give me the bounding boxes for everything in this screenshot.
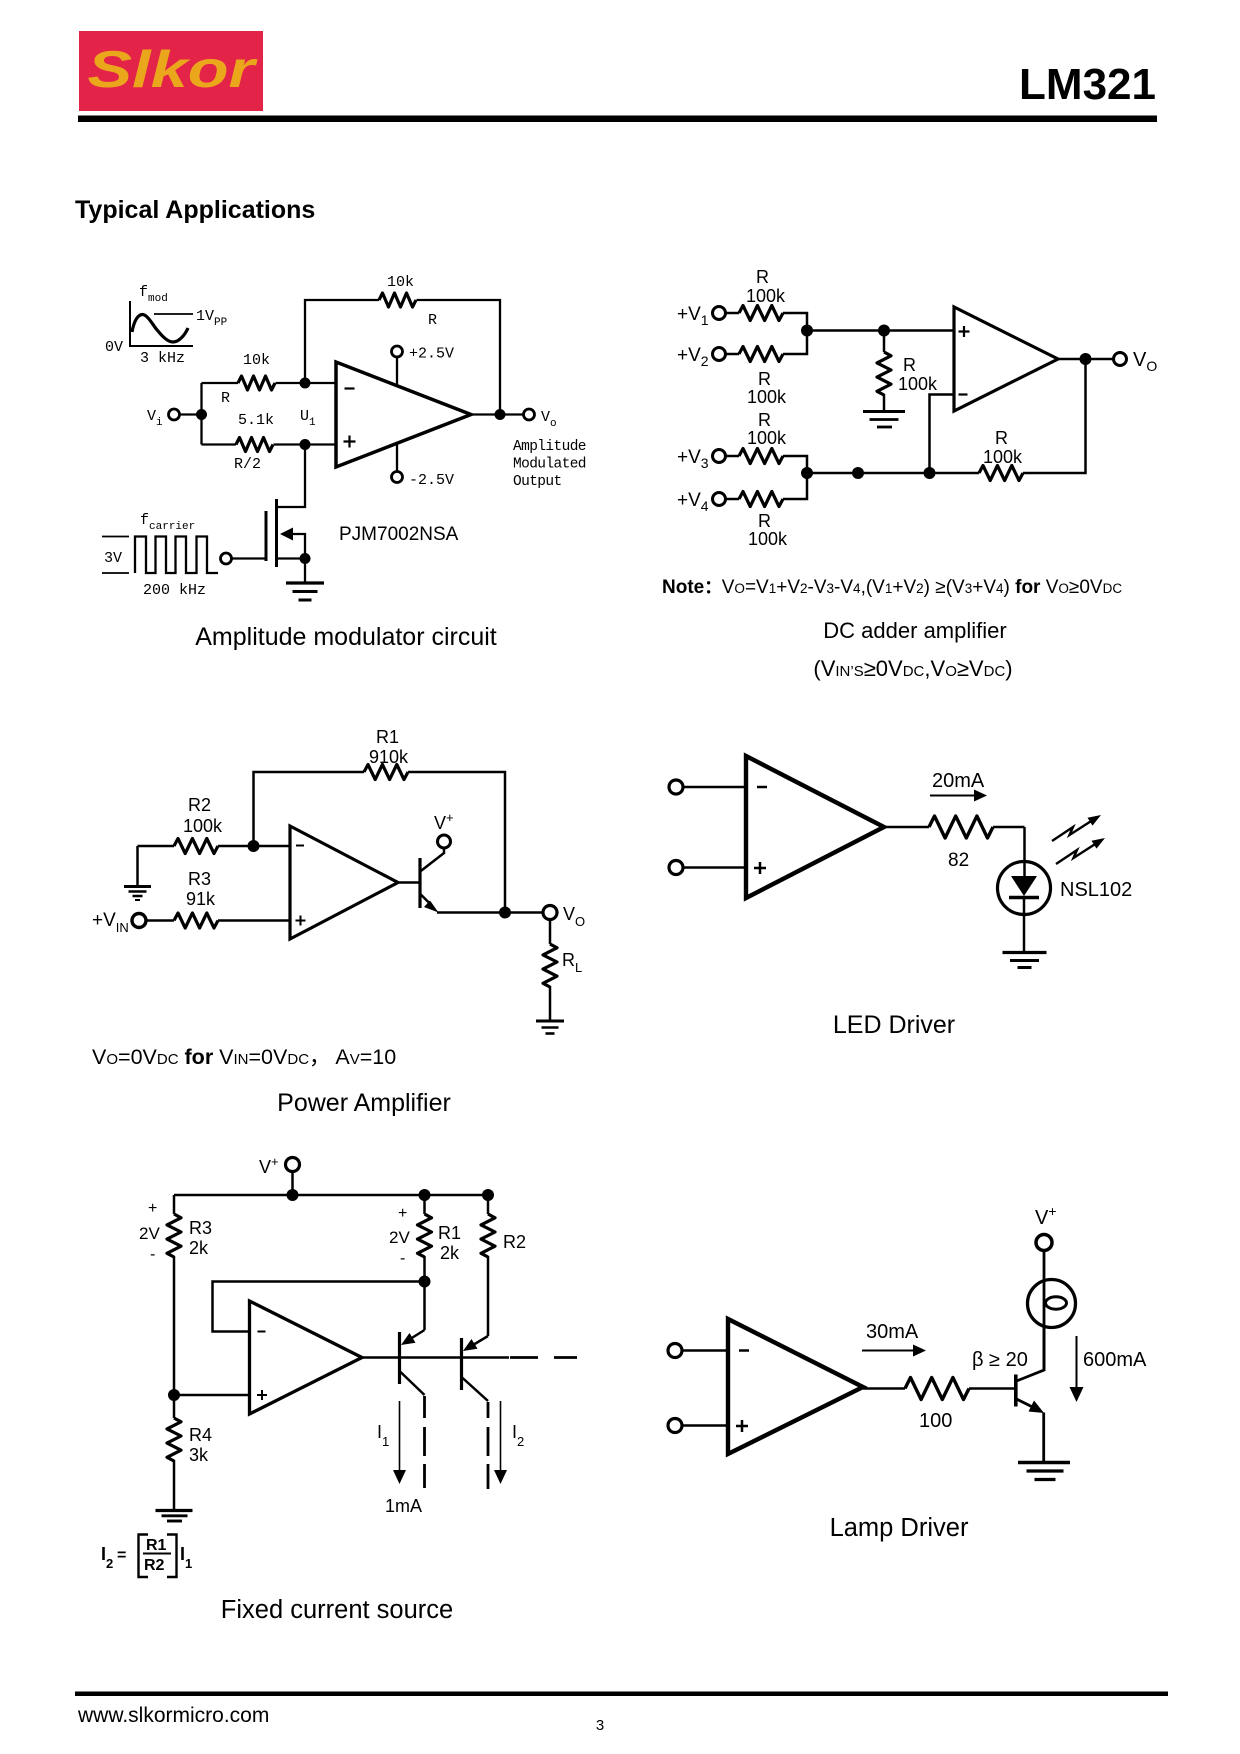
svg-text:PJM7002NSA: PJM7002NSA: [339, 524, 459, 545]
svg-text:R: R: [221, 390, 230, 407]
node output: [495, 409, 506, 420]
wire V+ to rail: [291, 1172, 294, 1196]
wire base: [398, 881, 420, 883]
node inverting input: [300, 378, 311, 389]
wire R1 to node: [423, 1256, 426, 1282]
transistor Q2 bar: [460, 1338, 463, 1390]
svg-text:Power Amplifier: Power Amplifier: [277, 1089, 451, 1117]
node V+ rail: [287, 1189, 299, 1201]
wire node to R4: [173, 1395, 176, 1418]
resistor R 100k (V3): [739, 449, 783, 464]
wire rail to R2: [487, 1195, 490, 1214]
resistor R4 3k: [167, 1418, 181, 1461]
wire input 1: [683, 786, 746, 789]
svg-text:2k: 2k: [440, 1243, 460, 1263]
wire input 2: [683, 866, 746, 869]
f_mod waveform axes: [129, 301, 193, 346]
resistor R1 910k: [364, 765, 408, 780]
transistor Q2 collector lead: [462, 1377, 489, 1401]
svg-text:100: 100: [919, 1410, 952, 1432]
resistor R3 2k: [167, 1214, 181, 1257]
wire V2 to resistor: [726, 353, 739, 356]
svg-text:=: =: [117, 1547, 126, 1564]
f_mod sine wave: [132, 315, 188, 342]
svg-text:R3: R3: [188, 869, 211, 889]
node R1 rail: [419, 1189, 431, 1201]
terminal +2.5V: [392, 346, 403, 357]
wire feedback right and down: [417, 300, 501, 415]
node inverting: [248, 840, 260, 852]
svg-text:200 kHz: 200 kHz: [143, 582, 206, 599]
wire node to Q1 emitter: [423, 1282, 426, 1331]
svg-text:3 kHz: 3 kHz: [140, 350, 185, 367]
node non-inverting: [168, 1389, 180, 1401]
terminal +V1: [713, 307, 726, 320]
wire output to resistor: [884, 826, 929, 829]
terminal VO: [1114, 353, 1127, 366]
svg-text:-: -: [400, 1250, 405, 1267]
node C: [801, 467, 813, 479]
transistor Q1 collector lead: [400, 1371, 425, 1395]
ground shunt: [863, 412, 905, 428]
wire rail to R3: [173, 1195, 176, 1214]
resistor R/2 5.1k: [236, 438, 273, 452]
terminal V+: [438, 835, 451, 848]
wire inverting input: [930, 395, 955, 474]
ground R4: [156, 1511, 193, 1522]
node output: [1080, 353, 1092, 365]
wire output: [471, 413, 523, 415]
lamp circle: [1028, 1280, 1076, 1328]
svg-text:+: +: [398, 1205, 407, 1222]
svg-text:5.1k: 5.1k: [238, 412, 274, 429]
transistor Q1 PJM7002NSA channel: [275, 499, 278, 567]
svg-text:100k: 100k: [746, 286, 786, 306]
svg-text:R: R: [995, 428, 1008, 448]
I1 arrow: [399, 1401, 401, 1472]
svg-text:R4: R4: [189, 1425, 212, 1445]
node output: [499, 907, 511, 919]
plus sign U3: [296, 916, 306, 926]
wire top rail: [174, 1194, 488, 1197]
svg-text:R: R: [903, 355, 916, 375]
transistor Q emitter lead: [1017, 1399, 1035, 1408]
wire resistor to inverting input: [276, 382, 337, 384]
svg-text:Modulated: Modulated: [513, 457, 586, 473]
svg-text:1mA: 1mA: [385, 1496, 422, 1516]
transistor Q2 base bar: [418, 858, 421, 908]
resistor R3 91k: [174, 913, 218, 928]
op-amp U1: [336, 362, 471, 467]
wire emitter to output: [437, 911, 505, 914]
wire V4 to resistor: [726, 498, 739, 501]
Slkor logo: [79, 31, 263, 111]
svg-text:DC adder amplifier: DC adder amplifier: [823, 618, 1006, 643]
node D: [852, 467, 864, 479]
resistor 82: [929, 816, 993, 838]
resistor 10k feedback: [379, 293, 416, 307]
transistor Q collector lead: [1017, 1327, 1045, 1381]
minus sign U3: [296, 845, 304, 847]
transistor Q base bar: [1014, 1375, 1018, 1407]
wire resistor to non-inverting input: [274, 443, 337, 445]
resistor R1 2k: [418, 1214, 432, 1257]
transistor Q1 bar: [398, 1332, 401, 1384]
wire rail to R1: [423, 1195, 426, 1214]
svg-text:2V: 2V: [139, 1224, 160, 1243]
Q2 collector dashed: [487, 1402, 490, 1489]
svg-text:100k: 100k: [983, 447, 1023, 467]
op-amp U5: [250, 1301, 363, 1414]
wire node B down to resistor: [883, 331, 886, 353]
svg-text:R3: R3: [189, 1218, 212, 1238]
transistor Q2 emitter: [421, 895, 432, 906]
plus sign U6: [736, 1420, 748, 1432]
wire LED to ground: [1023, 897, 1026, 952]
wire R2 to inverting input: [218, 845, 290, 848]
wire VIN to R3: [147, 919, 175, 922]
plus sign U4: [754, 862, 766, 874]
svg-text:Fixed current source: Fixed current source: [221, 1596, 453, 1624]
3V level dashes: [102, 537, 129, 574]
wire bottom rail: [807, 472, 979, 475]
arrow 600mA: [1076, 1336, 1078, 1388]
wire V+ through lamp: [1043, 1250, 1046, 1371]
plus sign U2: [959, 326, 970, 337]
terminal input 1: [669, 780, 683, 794]
wire R2 to Q2 emitter: [487, 1256, 490, 1336]
wire R3 to node: [173, 1256, 176, 1395]
node R1 bottom: [419, 1276, 431, 1288]
Q1 emitter arrowhead: [401, 1333, 416, 1345]
node R2 rail: [482, 1189, 494, 1201]
svg-text:100k: 100k: [747, 428, 787, 448]
terminal +V4: [713, 493, 726, 506]
wire base line: [362, 1356, 509, 1359]
wire input 1: [682, 1349, 728, 1352]
svg-text:2k: 2k: [189, 1238, 209, 1258]
wire V3 resistor to node C: [783, 456, 807, 473]
svg-text:R: R: [756, 267, 769, 287]
ground LED: [1003, 953, 1047, 968]
resistor R 100k (V1): [739, 306, 783, 321]
wire R2 left down: [136, 846, 139, 885]
terminal input 2: [669, 861, 683, 875]
ground R2: [124, 887, 151, 901]
LED cathode bar: [1009, 896, 1039, 900]
Q2 emitter arrowhead: [463, 1339, 478, 1351]
node non-inverting input: [300, 439, 311, 450]
svg-text:100k: 100k: [183, 816, 223, 836]
wire ground to R2: [138, 845, 175, 848]
svg-text:+: +: [148, 1200, 157, 1217]
svg-text:Slkor: Slkor: [88, 41, 259, 99]
header rule: [78, 116, 1157, 123]
ground RL: [536, 1021, 564, 1034]
transistor Q1 gate plate: [265, 511, 268, 561]
svg-text:R/2: R/2: [234, 456, 261, 473]
svg-text:Typical Applications: Typical Applications: [75, 196, 315, 224]
svg-text:R: R: [428, 312, 437, 329]
transistor Q1 emitter lead: [411, 1330, 425, 1339]
svg-text:Lamp Driver: Lamp Driver: [830, 1514, 969, 1542]
wire drain from non-inverting node: [277, 445, 305, 508]
svg-text:0V: 0V: [105, 339, 123, 356]
terminal Vo: [524, 409, 535, 420]
wire node to op-amp: [174, 1394, 250, 1397]
resistor R 100k (feedback): [979, 466, 1023, 481]
terminal +V3: [713, 450, 726, 463]
arrow 20mA: [930, 795, 976, 797]
terminal input 2: [668, 1419, 682, 1433]
node source: [300, 553, 311, 564]
resistor R 100k (shunt): [877, 352, 891, 395]
resistor R2 100k: [174, 839, 218, 854]
resistor R 100k (V4): [739, 492, 783, 507]
wire gate: [232, 557, 266, 559]
Q1 collector dashed: [423, 1396, 426, 1488]
transistor Q2 emitter lead: [473, 1336, 488, 1345]
svg-text:91k: 91k: [186, 889, 216, 909]
wire vertical split: [200, 383, 202, 445]
node E inverting junction: [924, 467, 936, 479]
wire input 2: [682, 1424, 728, 1427]
svg-text:β ≥ 20: β ≥ 20: [972, 1349, 1028, 1371]
op-amp U6: [728, 1319, 863, 1454]
wire shunt resistor to ground: [883, 394, 886, 411]
svg-text:10k: 10k: [387, 274, 414, 291]
wire VO to RL: [549, 920, 552, 945]
wire to resistor R/2: [202, 443, 237, 445]
svg-text:R1: R1: [146, 1537, 167, 1554]
plus sign U5: [257, 1390, 267, 1400]
svg-text:Amplitude modulator circuit: Amplitude modulator circuit: [195, 623, 497, 651]
emitter arrowhead: [424, 901, 439, 913]
ground lamp driver: [1018, 1463, 1070, 1480]
wire feedback resistor to output: [1023, 359, 1086, 473]
svg-text:R: R: [758, 369, 771, 389]
wire resistor to LED: [993, 826, 1025, 829]
terminal +V2: [713, 348, 726, 361]
svg-text:Amplitude: Amplitude: [513, 439, 586, 455]
op-amp U4: [746, 756, 884, 898]
wire feedback up: [305, 300, 379, 383]
I2 arrow: [500, 1401, 502, 1472]
arrow 30mA: [862, 1350, 915, 1352]
wire to VO: [511, 911, 543, 914]
svg-text:-2.5V: -2.5V: [409, 472, 454, 489]
terminal V+: [286, 1158, 300, 1172]
wire -2.5V pin: [396, 443, 398, 472]
transistor Q2 collector: [421, 848, 444, 871]
svg-text:100k: 100k: [898, 374, 938, 394]
transistor Q1 body stub and arrow: [293, 534, 305, 559]
LED triangle: [1011, 876, 1037, 896]
op-amp U2: [954, 307, 1058, 411]
node A: [801, 325, 813, 337]
svg-text:LM321: LM321: [1019, 60, 1156, 109]
resistor RL: [543, 944, 557, 987]
svg-text:R: R: [758, 511, 771, 531]
svg-text:R1: R1: [438, 1223, 461, 1243]
wire base dashed: [510, 1356, 577, 1359]
wire inverting loop: [213, 1282, 425, 1332]
Q emitter arrowhead: [1029, 1401, 1045, 1414]
svg-text:100k: 100k: [747, 387, 787, 407]
resistor R2: [481, 1214, 495, 1257]
resistor R 10k input: [238, 376, 275, 390]
node at Vi split: [196, 409, 207, 420]
svg-text:+2.5V: +2.5V: [409, 346, 454, 363]
wire node A to node B: [807, 329, 954, 332]
wire V4 resistor to node C: [783, 473, 807, 499]
wire V2 resistor to node A: [783, 331, 807, 355]
terminal input 1: [668, 1344, 682, 1358]
wire output: [1058, 358, 1113, 361]
svg-text:www.slkormicro.com: www.slkormicro.com: [77, 1704, 269, 1727]
lamp filament loop: [1046, 1297, 1067, 1309]
wire to resistor R upper: [202, 382, 239, 384]
minus sign U1: [345, 387, 355, 389]
wire V3 to resistor: [726, 455, 739, 458]
wire V1 resistor to node A: [783, 313, 807, 331]
wire Vi to node: [180, 413, 202, 415]
light ray arrow 2: [1056, 844, 1096, 865]
svg-text:30mA: 30mA: [866, 1321, 919, 1343]
wire emitter to ground: [1042, 1413, 1045, 1463]
wire output to resistor: [863, 1387, 905, 1390]
f_carrier square wave: [135, 537, 218, 574]
svg-text:3: 3: [596, 1717, 604, 1734]
svg-text:3k: 3k: [189, 1445, 209, 1465]
svg-text:910k: 910k: [369, 747, 409, 767]
minus sign U2: [959, 393, 968, 395]
svg-text:82: 82: [948, 850, 969, 871]
light ray arrow 1: [1052, 821, 1092, 842]
svg-text:NSL102: NSL102: [1060, 879, 1132, 901]
LED circle: [998, 862, 1051, 915]
transistor Q1 source stub: [277, 557, 305, 559]
wire source to ground: [304, 559, 306, 583]
svg-text:Output: Output: [513, 474, 562, 490]
resistor R 100k (V2): [739, 347, 783, 362]
svg-text:3V: 3V: [104, 550, 122, 567]
svg-text:R2: R2: [144, 1557, 165, 1574]
wire feedback top right: [408, 772, 505, 913]
svg-text:2V: 2V: [389, 1228, 410, 1247]
terminal +VIN: [132, 914, 146, 928]
input terminal Vi: [169, 409, 180, 420]
plus sign U1: [344, 436, 356, 448]
wire RL to ground: [549, 986, 552, 1020]
minus sign U6: [739, 1349, 749, 1352]
footer rule: [75, 1692, 1168, 1697]
svg-text:R: R: [758, 410, 771, 430]
node B: [878, 325, 890, 337]
terminal V+: [1036, 1235, 1052, 1251]
minus sign U5: [258, 1331, 266, 1333]
ground MOSFET source: [286, 583, 324, 600]
svg-text:R2: R2: [503, 1232, 526, 1252]
wire into LED: [1023, 827, 1026, 876]
svg-text:R2: R2: [188, 795, 211, 815]
resistor 100: [905, 1378, 969, 1400]
op-amp U3: [290, 826, 398, 939]
minus sign U4: [757, 786, 767, 789]
svg-text:LED Driver: LED Driver: [833, 1011, 955, 1039]
svg-text:600mA: 600mA: [1083, 1349, 1147, 1371]
svg-text:R1: R1: [376, 727, 399, 747]
wire V1 to resistor: [726, 312, 739, 315]
wire R4 to ground: [173, 1460, 176, 1510]
wire +2.5V pin: [396, 357, 398, 386]
wire R3 to non-inverting input: [218, 919, 290, 922]
svg-text:10k: 10k: [243, 352, 270, 369]
svg-text:100k: 100k: [748, 529, 788, 549]
wire feedback top left: [254, 772, 365, 846]
svg-text:-: -: [150, 1246, 155, 1263]
1Vpp reference line: [154, 313, 193, 315]
svg-text:20mA: 20mA: [932, 770, 985, 792]
terminal -2.5V: [392, 472, 403, 483]
svg-text:Note：VO=V1+V2-V3-V4,(V1+V2) ≥(: Note：VO=V1+V2-V3-V4,(V1+V2) ≥(V3+V4) for…: [662, 577, 1122, 598]
terminal VO: [543, 906, 557, 920]
wire resistor to base: [969, 1387, 1014, 1390]
gate terminal: [221, 553, 232, 564]
